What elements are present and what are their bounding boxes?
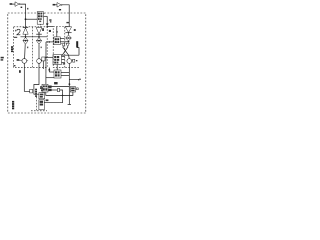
resistor R1 xyxy=(58,88,60,91)
label n15 xyxy=(63,63,65,64)
current transformer CT3 xyxy=(67,59,72,64)
buffer U2 xyxy=(57,3,61,8)
wire R1 right xyxy=(44,90,63,103)
label n4 xyxy=(49,19,51,21)
node J6 xyxy=(49,41,51,43)
wire C1 drop xyxy=(77,48,79,56)
inner dashed box IB2 (filter section) xyxy=(53,27,65,68)
zener Z4 xyxy=(48,68,50,73)
TVS Z3 xyxy=(66,35,72,38)
label 2 xyxy=(17,29,20,34)
label n1 xyxy=(21,7,23,8)
wire U6 out1 xyxy=(48,86,69,88)
label n10 xyxy=(76,60,78,61)
label n11 xyxy=(79,79,80,80)
wire U1 output xyxy=(20,4,25,27)
inner dashed box IB4 bottom edge xyxy=(31,110,47,112)
terminator T1 xyxy=(68,104,71,106)
varistor RV1 xyxy=(77,88,79,90)
wire bus top right xyxy=(65,26,69,28)
arrester G2 xyxy=(66,43,69,47)
label n13 xyxy=(41,47,42,49)
buffer U2 input wire xyxy=(54,4,58,6)
wire A1 right pins xyxy=(60,38,64,40)
label 6 xyxy=(19,70,21,73)
node J4 xyxy=(38,36,40,38)
node J3 xyxy=(25,36,27,38)
wire U2 output xyxy=(62,5,69,27)
diode D4 xyxy=(46,16,48,23)
diode D3 xyxy=(65,27,71,33)
sensor X2 xyxy=(73,59,75,62)
wire bus top left xyxy=(47,26,53,28)
IC U3 text xyxy=(38,13,40,15)
buffer U1 xyxy=(15,2,19,7)
wire U3 stub below xyxy=(39,24,41,27)
wire CT1 down xyxy=(24,63,29,91)
label quote xyxy=(15,30,16,32)
wire to CT3 xyxy=(68,55,71,58)
IC U3 xyxy=(37,12,43,25)
inner dashed bottom segment (right section) xyxy=(65,67,80,69)
controller M1 text xyxy=(40,101,43,103)
IC U5 text xyxy=(55,71,57,73)
label n6 xyxy=(49,30,51,32)
TVS Z2 xyxy=(36,37,41,40)
glyphs G1 xyxy=(48,86,51,88)
wire J5 riser xyxy=(45,42,47,84)
label IN2 xyxy=(53,4,56,6)
wire CT1 stub xyxy=(27,60,28,62)
wire Z4 to U5 xyxy=(49,71,54,73)
wire U4 right pins xyxy=(62,56,66,58)
dashed divider inside IB1 xyxy=(31,27,33,68)
margin text left xyxy=(1,57,4,59)
vertical text VT3 xyxy=(11,46,13,48)
relay K1 xyxy=(70,87,75,92)
wire X2 stub xyxy=(71,60,74,62)
wire cross X1 xyxy=(63,47,69,55)
node J1 xyxy=(25,18,27,20)
contact SW1 xyxy=(42,57,45,61)
node J2 xyxy=(46,26,48,28)
wire CT2 down xyxy=(34,63,39,94)
wire J5 to U4 xyxy=(46,56,53,58)
current transformer CT2 xyxy=(37,59,42,64)
label IN1 xyxy=(10,3,13,5)
wire D2 to Z2 xyxy=(38,34,40,37)
wire U4 to U5 xyxy=(56,65,58,71)
outer dashed enclosure xyxy=(8,13,86,113)
label n14 xyxy=(14,65,16,66)
node J9 xyxy=(69,83,71,85)
wire CT1 label lead xyxy=(19,59,22,61)
controller M1 xyxy=(39,100,44,110)
IC A1 text xyxy=(55,38,57,40)
wire link row xyxy=(21,36,48,38)
current transformer CT1 xyxy=(22,59,27,64)
wire bus lower xyxy=(62,54,80,56)
label n9 xyxy=(46,99,49,101)
IC U4 xyxy=(53,55,62,65)
wire Z1 down xyxy=(24,44,27,58)
label box H xyxy=(54,82,58,84)
wire riser to U5 xyxy=(46,77,54,79)
IC U5 xyxy=(54,70,61,78)
wire CT3 down xyxy=(68,63,70,104)
node J5 xyxy=(45,57,47,59)
label 4 xyxy=(17,59,20,61)
vertical text VT1 xyxy=(35,89,37,91)
wire D3 to Z3 xyxy=(68,33,70,35)
node J7 xyxy=(56,31,58,33)
module M2 xyxy=(39,93,45,99)
relay K1 text xyxy=(71,88,74,90)
wire U6 left stub xyxy=(40,86,42,88)
sensor X1 xyxy=(30,89,33,93)
arrester G1 xyxy=(62,43,65,47)
wire cross X2 xyxy=(62,47,68,55)
IC U4 text xyxy=(54,56,56,58)
wire Z2 down xyxy=(38,44,40,59)
IC A1 xyxy=(54,37,60,45)
wire to box A xyxy=(46,41,54,43)
diode D2 xyxy=(36,28,42,34)
wire U5 right pins xyxy=(61,72,69,74)
IC U6 xyxy=(42,84,48,92)
wire K1 down xyxy=(46,92,73,95)
wire U6 out2 xyxy=(48,89,58,91)
glyph blobs (tiny unreadable labels) xyxy=(1,3,81,109)
inner dashed box IB4 vertical edge (bottom-left section) xyxy=(36,97,38,111)
label n7 xyxy=(74,29,76,31)
node J10 xyxy=(62,95,64,97)
label n3 xyxy=(59,9,61,10)
wire J1 to U3 xyxy=(26,18,38,20)
wire SW1 down xyxy=(42,61,44,69)
wire U3 pin to D4 xyxy=(44,15,48,17)
node J8 xyxy=(68,41,70,43)
label n5 xyxy=(14,37,17,38)
glyphs J above M2 xyxy=(40,87,43,89)
wire J9 branch xyxy=(69,79,79,80)
label n12 xyxy=(27,47,28,49)
TVS Z1 xyxy=(23,37,28,40)
vertical text VT2 xyxy=(12,101,14,103)
wire D1 to Z1 xyxy=(25,34,27,37)
label n8 xyxy=(66,22,69,23)
buffer U1 input wire xyxy=(11,3,15,5)
capacitor C1 xyxy=(76,41,78,47)
inner dashed box IB1 (surge arrester section) xyxy=(14,27,48,68)
IC U6 text xyxy=(43,85,45,87)
diode D1 xyxy=(23,27,28,29)
module M2 text xyxy=(40,94,44,96)
label n16 xyxy=(27,8,28,10)
wire A1 top xyxy=(56,27,58,37)
label 7 xyxy=(42,28,44,31)
